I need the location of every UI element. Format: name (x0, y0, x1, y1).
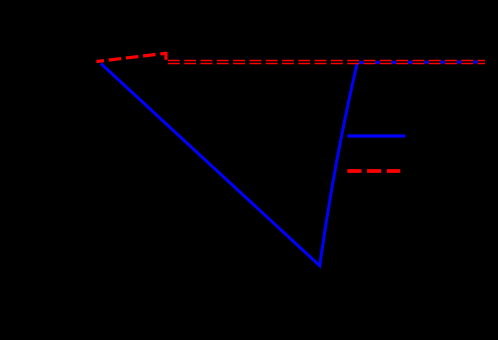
blue solid curve: descending branch, slightly bowed rising branch, horizontal cap line (101, 62, 485, 266)
legend blue solid sample (347, 134, 405, 137)
black dashed core over the flat red section (166, 61, 485, 63)
legend red dashed sample (347, 169, 400, 173)
red dashed flat segment (166, 60, 485, 65)
red step block at x~165 (164, 52, 167, 60)
red dashed rising segment (97, 53, 166, 61)
